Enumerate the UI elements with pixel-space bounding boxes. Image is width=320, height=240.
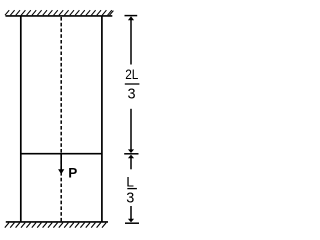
load arrowhead	[58, 169, 64, 174]
dimension shaft (2L/3 below label)	[130, 109, 132, 151]
dimension mid arrowhead (down)	[128, 149, 134, 153]
dimension bottom tick	[125, 222, 139, 224]
dashed centerline	[60, 17, 62, 221]
bottom support hatching	[5, 223, 106, 228]
bar left edge	[20, 16, 22, 222]
fraction bar 2L/3	[125, 83, 140, 85]
bar right edge	[101, 16, 103, 222]
svg-text:3: 3	[126, 190, 134, 206]
dimension top tick	[125, 15, 138, 17]
bottom support line	[6, 221, 108, 223]
load arrow P shaft	[60, 153, 62, 170]
svg-text:P: P	[68, 166, 77, 181]
dimension bottom arrowhead (down)	[128, 219, 134, 223]
fraction bar L/3	[127, 188, 137, 190]
svg-text:2L: 2L	[125, 67, 138, 82]
dimension mid tick	[124, 153, 138, 155]
svg-text:L: L	[126, 175, 134, 190]
dimension shaft (L/3 below label)	[130, 206, 132, 220]
dimension shaft upper (2L/3 above label)	[130, 20, 132, 65]
top support hatching	[5, 10, 113, 15]
top support line	[6, 15, 113, 17]
dimension top arrowhead (up)	[128, 16, 134, 20]
load application line	[21, 153, 102, 155]
svg-text:3: 3	[128, 86, 136, 102]
dimension mid arrowhead (up)	[128, 155, 134, 159]
dimension shaft (L/3 above label)	[130, 158, 132, 170]
